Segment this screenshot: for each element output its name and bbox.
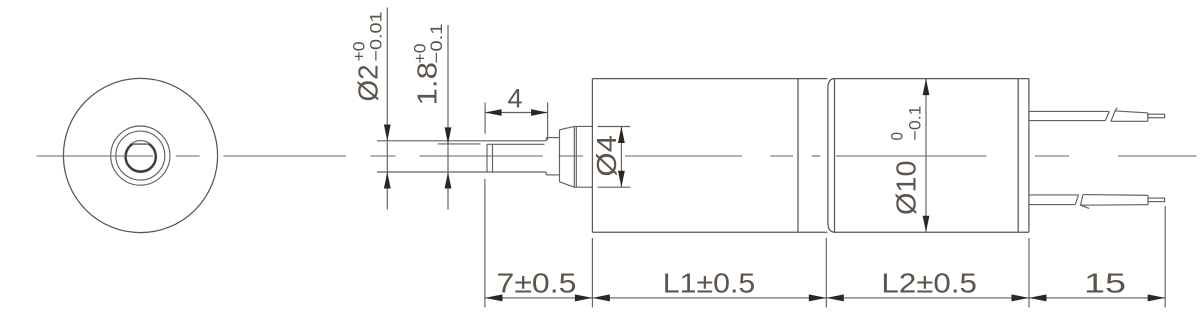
flat run-out — [486, 144, 488, 172]
svg-text:L2±0.5: L2±0.5 — [881, 267, 977, 298]
front view: shaft circle with flat — [126, 141, 156, 171]
front view: motor body circle — [63, 78, 217, 232]
bottom lead wire — [1029, 195, 1164, 209]
dimension Ø2 +0/-0.01 — [386, 8, 388, 210]
top lead wire — [1029, 108, 1164, 121]
dimension Ø10 0/-0.1 — [925, 79, 927, 233]
bottom dimension line — [485, 297, 1165, 299]
side view: shaft — [377, 138, 546, 175]
motor end cap — [1017, 79, 1019, 233]
gearbox/motor joint — [797, 79, 799, 233]
svg-text:0: 0 — [888, 132, 907, 141]
svg-text:Ø10: Ø10 — [891, 161, 922, 216]
svg-text:4: 4 — [507, 84, 522, 114]
dimension 1.8 +0/-0.1 — [438, 25, 481, 210]
step to collar — [545, 138, 547, 141]
svg-text:−0.01: −0.01 — [367, 12, 386, 62]
svg-text:−0.1: −0.1 — [906, 106, 925, 141]
svg-text:15: 15 — [1084, 267, 1126, 298]
svg-text:L1±0.5: L1±0.5 — [663, 267, 756, 298]
dimension 4 (flat length) — [485, 102, 547, 140]
bottom wire pin — [1148, 198, 1165, 202]
gearbox left face — [591, 79, 593, 233]
side view: collar — [546, 138, 559, 175]
svg-text:Ø2: Ø2 — [353, 65, 384, 102]
front view: boss inner circle — [116, 131, 165, 180]
top wire pin — [1148, 114, 1165, 118]
svg-text:1.8: 1.8 — [412, 62, 443, 106]
motor right end — [1028, 79, 1030, 233]
motor can front shoulder — [828, 79, 834, 232]
body top outline — [592, 78, 827, 80]
svg-text:7±0.5: 7±0.5 — [497, 267, 577, 298]
side view: bearing boss (Ø4) — [574, 126, 592, 187]
svg-text:Ø4: Ø4 — [591, 135, 622, 177]
shaft flat edge line — [487, 143, 545, 145]
side view: gearbox and motor body outline — [592, 79, 1029, 233]
body bottom outline — [592, 231, 827, 233]
front view: boss outer circle — [111, 126, 170, 185]
dimension Ø4 — [598, 127, 631, 188]
svg-text:−0.1: −0.1 — [427, 24, 446, 64]
side view: cone hub — [560, 126, 575, 187]
bottom dimension chain extension lines — [485, 179, 1165, 308]
centerline — [37, 155, 1197, 157]
bottom chain arrows — [485, 294, 1165, 301]
